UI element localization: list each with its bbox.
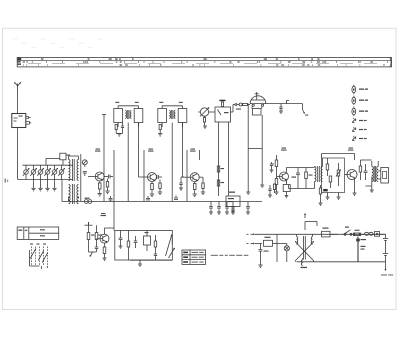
coil L2 (band filter): [30, 165, 36, 179]
resistor R3: [115, 123, 118, 134]
oscillator coil T1 primary: [69, 160, 79, 181]
wire LT return: [297, 261, 386, 263]
wire box grounds: [326, 193, 341, 200]
label TB: [229, 192, 235, 193]
trimmer C (osc): [82, 160, 87, 167]
T5 cross wires: [296, 234, 314, 261]
wire feed 6: [186, 150, 188, 202]
wire TR3 base: [183, 171, 191, 177]
IF transformer IFT2: [158, 102, 187, 127]
capacitor C13: [279, 104, 283, 114]
wire TR4 collector: [286, 168, 314, 173]
coil L6 (band filter): [58, 165, 64, 179]
resistor R5: [150, 182, 154, 197]
resistor R22: [103, 243, 107, 260]
capacitor C7: [157, 175, 162, 179]
capacitor C9: [109, 196, 113, 202]
antenna: [15, 82, 21, 90]
wire feed 4: [143, 150, 145, 202]
capacitor C22: [119, 231, 123, 249]
tuning indicator tube: [250, 92, 266, 115]
resistor R11: [236, 103, 250, 110]
T5 core: [304, 236, 306, 260]
wire feed 8: [276, 155, 278, 160]
transistor TR6: [100, 234, 109, 243]
wire tie: [248, 148, 262, 150]
wire block drops: [219, 122, 229, 196]
reflex box: [115, 231, 173, 261]
legend tube symbol 1: [352, 85, 368, 94]
wire top rail audio: [322, 154, 355, 159]
fuse links: [364, 232, 374, 235]
osc coil T2 primary: [69, 185, 79, 204]
resistor R30: [217, 166, 224, 172]
wire HT rail: [255, 233, 386, 235]
coil L4 (band filter): [44, 165, 50, 179]
capacitor C14: [209, 202, 213, 215]
label TS2: [148, 149, 154, 152]
resistor R9: [199, 177, 205, 194]
capacitor C30: [179, 177, 184, 190]
T5 bottom winding: [301, 258, 308, 268]
oscillator coil L8: [198, 108, 215, 129]
wire feed 1: [102, 115, 106, 202]
wire antenna lead-in: [17, 89, 19, 113]
rectifier B1: [264, 237, 278, 247]
label TR6 type: [101, 213, 107, 216]
ground below L2: [31, 180, 35, 191]
wire tuner bottom bus: [18, 179, 73, 181]
padder cap: [83, 172, 87, 177]
wire main bus: [62, 201, 262, 203]
antenna coupling box A1: [12, 114, 26, 128]
capacitor C16: [225, 202, 229, 215]
wire LT rail: [255, 243, 262, 245]
output transformer T4: [372, 161, 378, 182]
resistor R18: [329, 176, 332, 188]
capacitor C18: [270, 162, 274, 172]
wire dial drive right: [260, 115, 264, 187]
wire out couple: [355, 157, 372, 160]
resistor R21: [319, 185, 328, 205]
label TS4: [281, 148, 287, 151]
alignment table: [182, 250, 206, 264]
wire TR6 base lead: [97, 238, 100, 240]
wire IFT2 out: [182, 123, 184, 172]
resistor R7: [158, 123, 162, 137]
capacitor C27: [356, 237, 366, 262]
resistor R20: [359, 160, 362, 180]
scan ghost marks: [12, 39, 103, 49]
IF transformer IFT1: [114, 102, 143, 127]
resistor R17: [326, 158, 329, 176]
wire det down: [303, 104, 309, 116]
core T1: [73, 159, 75, 181]
label TS3: [190, 149, 196, 152]
ground TR1 emitter: [98, 194, 102, 197]
wire feed 3: [127, 123, 129, 202]
capacitor C5: [121, 123, 124, 134]
wire TR2 base: [139, 171, 148, 177]
wire bus drop left: [61, 180, 63, 202]
capacitor C11: [174, 196, 178, 200]
wire link down: [113, 202, 115, 231]
loudspeaker LS: [378, 168, 388, 184]
wire AF bottom: [289, 185, 315, 189]
transistor TR1 (converter): [95, 172, 104, 181]
wire rail seg2: [361, 233, 365, 235]
AGC network: [85, 222, 103, 257]
battery BT1: [383, 234, 388, 261]
wire T5 riser: [304, 214, 317, 231]
thermistor R19: [336, 163, 341, 186]
capacitor C15: [217, 202, 221, 215]
detector block: [215, 107, 231, 122]
page margin mark: [5, 179, 9, 183]
wire TR5 emitter: [353, 178, 357, 195]
ground below L4: [45, 180, 49, 191]
wire osc links: [69, 156, 79, 202]
resistor R8: [193, 182, 197, 197]
resistor R27: [354, 230, 361, 236]
wire rail feed arrows: [247, 234, 255, 244]
output stage box: [322, 158, 345, 193]
wire det out: [266, 103, 303, 105]
dial scale: [17, 57, 391, 67]
legend symbol 6: [352, 136, 366, 141]
ground R2: [105, 191, 109, 194]
resistor R1: [98, 181, 101, 193]
component cluster det: [268, 184, 276, 197]
mains plug: [374, 232, 385, 237]
wire TR4 base: [277, 176, 280, 178]
emitter block TR4: [283, 180, 290, 198]
capacitor R12: [231, 202, 235, 215]
wire AF tap: [287, 101, 290, 104]
ground IFT1: [116, 134, 122, 137]
coil L5 (band filter): [51, 165, 57, 179]
wire antenna to tuner: [17, 128, 19, 180]
coil L3 (band filter): [37, 165, 43, 179]
ground below L5: [52, 180, 56, 191]
fuse F1: [322, 228, 331, 237]
resistor R23: [127, 231, 130, 261]
connector pins: [26, 117, 31, 125]
trimmer arrows: [166, 235, 175, 259]
resistor R2: [106, 179, 108, 192]
resistor R31: [217, 180, 224, 186]
legend tube symbol 2: [352, 96, 368, 105]
transistor TR5 (output): [347, 170, 357, 180]
transistor TR4 (AF preamp): [280, 172, 289, 181]
wire IFT1 out: [138, 123, 140, 172]
coil L1 (band filter): [23, 165, 29, 179]
wire tuner top bus: [23, 164, 73, 166]
wire AGC riser: [80, 154, 82, 202]
resistor R16: [305, 168, 313, 189]
oscillator block TB: [226, 196, 240, 212]
wire feed 2: [113, 150, 115, 202]
legend symbol 4: [352, 118, 366, 123]
wire reflex bottom: [130, 260, 172, 266]
core T2: [73, 184, 75, 204]
driver transformer T3: [315, 159, 323, 189]
switch S2: [344, 227, 352, 236]
resistor R24: [154, 235, 157, 260]
legend tube symbol 3: [352, 107, 368, 116]
capacitor C25 (electrolytic): [258, 244, 268, 268]
power transformer T5 primary: [297, 237, 298, 245]
pilot lamp: [277, 244, 289, 263]
transistor TR3 (IF amp): [190, 173, 199, 182]
wire TR1 base: [88, 176, 95, 178]
wire TR5 base: [345, 174, 348, 176]
trimmer box: [60, 153, 70, 165]
transistor TR2 (IF amp): [148, 173, 157, 182]
capacitor C19: [292, 168, 300, 189]
capacitor C17: [246, 202, 250, 215]
wire riser: [46, 159, 60, 166]
model label text: [211, 255, 249, 256]
wire dial drive left: [246, 104, 250, 195]
legend symbol 5: [352, 127, 366, 132]
ferrite block: [144, 231, 151, 252]
resistor R6: [158, 180, 162, 195]
phono jack: [84, 198, 91, 204]
wire feed 7: [198, 150, 200, 160]
label TS5: [348, 148, 354, 151]
label TS1: [95, 149, 101, 152]
capacitor C10: [146, 196, 150, 200]
capacitor C12: [231, 103, 240, 112]
power transformer T5 secondary: [311, 237, 312, 245]
capacitor C4: [104, 175, 113, 179]
capacitor C20: [364, 164, 368, 180]
wire rail seg: [330, 233, 338, 235]
wire TR6 collector: [105, 228, 115, 234]
resistor R10: [220, 100, 226, 107]
wire feed 5: [171, 123, 173, 202]
sheet number: [381, 274, 393, 275]
resistor R13: [275, 160, 278, 174]
ground T4: [366, 177, 374, 193]
dial cord table: [17, 227, 59, 239]
wire battery tail: [385, 262, 386, 271]
resistor R14: [275, 174, 279, 194]
wire lamp branch: [276, 234, 278, 262]
band switch S1: [30, 244, 48, 270]
ground below L3: [38, 180, 42, 191]
capacitor C23: [134, 236, 138, 248]
